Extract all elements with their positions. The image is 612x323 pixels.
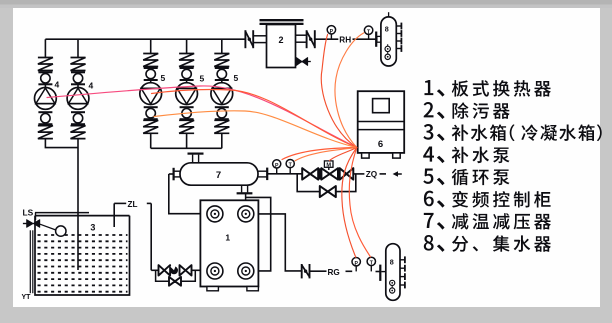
legend line 8 fen ji shui qi	[424, 235, 551, 252]
left nozzle of vessel 7	[174, 170, 181, 172]
wire: pump 4a riser	[44, 39, 46, 57]
svg-text:2: 2	[278, 35, 283, 45]
flex connector above pump 4a	[38, 58, 53, 71]
wire: flanged spool out of separator 2	[296, 34, 306, 36]
wire: pump 5c drop to header	[221, 133, 223, 148]
wire: pump 5 suction header	[151, 147, 222, 149]
wire: ZL riser from valve line	[150, 203, 152, 270]
ball valve (solid)	[170, 266, 178, 274]
flange into bottom collector 8	[379, 265, 381, 281]
wire: RG pipe to collector	[376, 271, 381, 273]
svg-text:ZL: ZL	[128, 200, 138, 209]
makeup tank 3 walls	[35, 216, 130, 295]
wire: condensate bypass loop	[156, 270, 196, 281]
valve above pump 5a	[144, 67, 158, 69]
wire: vessel7 bottom nozzle into HX	[245, 194, 247, 200]
legend line 4 bu shui beng	[423, 146, 509, 163]
drain valve of separator 2	[296, 58, 307, 66]
flange into top collector 8	[375, 32, 377, 47]
wire: condensate line	[151, 269, 158, 271]
valve above pump 4a	[38, 71, 52, 73]
butterfly valve right of separator 2	[306, 30, 308, 48]
control wire to pump 5 lower	[154, 111, 357, 148]
flex connector below pump 5c	[214, 120, 229, 133]
valve above pump 5b	[180, 67, 194, 69]
reducer vessel 7	[180, 163, 258, 185]
svg-text:4: 4	[89, 81, 94, 91]
flex connector below pump 4b	[71, 126, 86, 139]
HX port (bottom-left)	[207, 263, 223, 279]
control wire to bottom T gauge	[349, 148, 370, 257]
wire: HX top-right port to drop	[258, 214, 301, 271]
svg-text:1: 1	[225, 233, 230, 243]
drain cocks in bottom collector	[390, 280, 395, 285]
wire: pump 5c riser	[221, 39, 223, 53]
wire: RH return pipe	[315, 38, 338, 40]
pump 4a (makeup pump)	[35, 88, 57, 110]
svg-text:YT: YT	[22, 294, 32, 301]
control wire to top T gauge	[335, 33, 364, 148]
svg-text:ZQ: ZQ	[366, 170, 378, 179]
svg-text:RH: RH	[339, 36, 351, 45]
wire: LS supply line over tank	[35, 212, 89, 214]
outlet stubs of bottom collector 8	[400, 259, 405, 261]
wire: stub	[77, 84, 79, 87]
wire: vessel7 left nozzle down to HX top-left port	[169, 174, 201, 214]
flow arrow (rightward) into bottom collector	[381, 271, 391, 273]
svg-text:4: 4	[55, 79, 60, 89]
gate valve (condensate) 2	[180, 265, 192, 275]
flex connector below pump 4a	[38, 126, 53, 139]
temperature gauge T on RH line	[368, 34, 370, 39]
wire: stub	[44, 84, 46, 87]
svg-text:5: 5	[161, 73, 166, 83]
butterfly valve left of separator 2	[244, 30, 246, 48]
valve below pump 5b	[180, 106, 194, 108]
float valve body	[27, 220, 40, 228]
flex connector above pump 5b	[179, 54, 194, 67]
legend line 5 xun huan beng	[423, 169, 509, 186]
HX feet	[207, 287, 219, 291]
cabinet screen	[373, 99, 390, 113]
svg-text:P: P	[330, 29, 334, 35]
valve below pump 5c	[215, 106, 229, 108]
control wire to steam P gauge	[282, 148, 357, 160]
legend line 2 chu wu qi	[424, 102, 510, 119]
control wire to steam T gauge	[295, 148, 357, 161]
temperature gauge T on steam line	[289, 168, 291, 174]
cabinet band	[358, 121, 405, 123]
wire: steam bypass loop	[297, 174, 356, 192]
svg-text:P: P	[354, 261, 358, 267]
top collector 8 vessel	[381, 17, 396, 66]
wire: steam line to ZQ	[353, 173, 364, 175]
svg-text:8: 8	[390, 257, 394, 266]
pump 5c (circulation pump)	[211, 83, 233, 105]
wire: pump 4b riser	[77, 39, 79, 57]
svg-text:5: 5	[234, 73, 239, 83]
flex connector below pump 5a	[143, 120, 158, 133]
legend line 6 bian pin kong zhi gui	[424, 191, 551, 208]
flex connector below pump 5b	[179, 120, 194, 133]
wire: pump 5a riser	[150, 39, 152, 53]
gate valve (steam) 1	[302, 168, 318, 179]
cabinet feet	[362, 153, 370, 158]
svg-text:LS: LS	[23, 208, 34, 218]
wire: pump 5a drop to header	[150, 133, 152, 148]
wire: stub	[150, 80, 152, 83]
flex connector above pump 4b	[71, 58, 86, 71]
flange bars	[319, 168, 321, 179]
water (dashed fill) in tank 3	[38, 234, 128, 236]
butterfly valve on RG line	[301, 264, 303, 278]
wire: branch to HX bottom-right port	[246, 197, 271, 271]
flex connector above pump 5c	[214, 54, 229, 67]
outlet stubs of top collector 8	[396, 25, 401, 27]
control cabinet 6 body	[358, 91, 405, 153]
float arm and ball	[40, 224, 56, 230]
bypass valve (steam)	[320, 186, 336, 197]
wire: pump 5b riser	[186, 39, 188, 53]
control wire to circulation pumps 5	[152, 90, 357, 148]
dirt separator 2 body	[267, 25, 296, 68]
valve below pump 4b	[71, 111, 85, 113]
gate valve (steam) 2	[340, 168, 354, 179]
svg-text:M: M	[326, 163, 331, 169]
pressure gauge P on RH line	[330, 34, 332, 39]
wire: pump 4b suction drop to tank	[77, 139, 79, 270]
legend line 7 jian wen jian ya qi	[424, 213, 551, 230]
valve above pump 5c	[215, 67, 229, 69]
control wire to makeup pumps 4	[47, 86, 357, 148]
control wire to motor valve M	[330, 148, 357, 161]
bottom nozzle of vessel 7	[241, 185, 243, 192]
pump 5b (circulation pump)	[176, 83, 198, 105]
right nozzle of vessel 7	[258, 170, 267, 172]
wire: pump 4a outlet elbow	[45, 139, 78, 148]
bypass valve (condensate)	[169, 277, 181, 286]
flow arrow (incoming steam)	[393, 171, 398, 177]
wire: nozzle flange atop vessel 7	[188, 153, 204, 155]
svg-text:RG: RG	[328, 268, 340, 277]
gate valve (condensate) 1	[159, 265, 171, 275]
svg-text:P: P	[275, 163, 279, 169]
pressure gauge P on steam line	[276, 168, 278, 174]
HX port (top-left)	[207, 206, 223, 222]
wire: stub	[221, 80, 223, 83]
wire: steam line from vessel 7	[267, 173, 302, 175]
pump 4b (makeup pump)	[67, 88, 89, 110]
flex connector above pump 5a	[143, 54, 158, 67]
bottom collector 8 vessel	[386, 244, 400, 301]
HX port (top-right)	[238, 206, 254, 222]
wire: top supply header pipe	[45, 38, 245, 40]
valve below pump 5a	[144, 106, 158, 108]
legend line 1 ban shi huan re qi	[425, 80, 551, 97]
flow arrow (leftward) at top collector	[383, 36, 389, 42]
wire: pump 5b drop to header	[186, 133, 188, 148]
svg-text:3: 3	[90, 223, 95, 233]
legend line 3 bu shui xiang	[423, 124, 601, 141]
flange bars 2	[338, 168, 340, 179]
dirt separator 2 top cap	[260, 19, 304, 21]
plate heat exchanger 1 body	[200, 200, 258, 286]
temperature gauge T on RG line	[370, 266, 372, 272]
wire: ZQ stub	[380, 173, 387, 175]
control wire to bottom P gauge	[342, 148, 357, 258]
pressure gauge P on RG line	[355, 266, 357, 272]
svg-text:5: 5	[200, 74, 205, 84]
drain cocks in top collector	[385, 46, 390, 51]
motor valve (steam) with actuator M	[321, 168, 338, 179]
control wire to top P gauge	[321, 34, 357, 147]
svg-text:7: 7	[216, 170, 221, 181]
valve above pump 4b	[71, 71, 85, 73]
wire: ZL horizontal	[114, 202, 126, 204]
pump 5a (circulation pump)	[140, 83, 162, 105]
wire: stub	[186, 80, 188, 83]
svg-text:6: 6	[378, 139, 383, 150]
wire: flanged spool into separator 2	[254, 35, 267, 37]
valve below pump 4a	[38, 111, 52, 113]
HX port (bottom-right)	[238, 263, 254, 279]
wire: ZL drop into tank	[113, 203, 115, 227]
wire: LS drop to float valve	[35, 213, 37, 220]
wire: RG pipe	[310, 270, 327, 272]
svg-text:8: 8	[385, 25, 389, 34]
vent tick above collector 8	[388, 12, 390, 17]
level gauge tube YT	[29, 230, 31, 293]
